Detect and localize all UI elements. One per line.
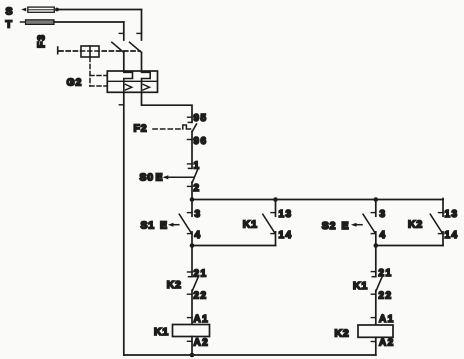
svg-text:A2: A2 [379,337,395,348]
wire node D to K2 break contact [191,246,193,277]
K1 break contact blade [376,277,382,290]
terminal tick 13 (K1) [271,212,276,214]
terminal tick 14 (K2) [439,233,444,235]
K2 aux branch lower wire [442,232,444,246]
svg-text:S2: S2 [322,220,336,232]
svg-text:E: E [160,220,168,232]
terminal tick 14 (K1) [271,233,276,235]
svg-text:95: 95 [194,113,208,124]
S2 branch lower wire [375,232,377,246]
wire node E to K1 break contact [375,246,377,277]
svg-text:4: 4 [195,230,202,241]
terminal tick 13 (K2) [439,212,444,214]
svg-text:F3: F3 [36,34,48,48]
svg-text:K1: K1 [243,218,258,230]
wire K2 break to K1 coil [191,290,193,324]
F2 thermal bump [183,125,191,129]
fuse F3 pole S [28,7,55,12]
terminal tick breaker right pole top [137,32,142,34]
node C dot (S2 branch) [374,197,379,202]
breaker G2 body box [107,71,157,92]
svg-text:4: 4 [380,230,387,241]
breaker G2 contact blade left pole [112,42,124,52]
S1 actuator arrow [172,224,179,226]
terminal tick left riser [119,104,124,106]
wire left riser (T pole to bottom rail) [123,92,125,355]
wire right pole out, jog to control column [142,92,193,122]
terminal tick 22 (K1 nc) [371,293,376,295]
node D dot [190,243,195,248]
coil K1 [173,325,210,337]
svg-text:13: 13 [445,209,459,220]
wire right pole blade to box [141,52,143,71]
svg-text:S0: S0 [140,171,154,183]
K1 make contact blade [263,214,275,232]
node B dot (K1 aux branch) [273,197,278,202]
K2 make contact blade [430,214,442,232]
terminal tick 21 (K2 nc) [188,271,193,273]
magnetic release chevron right pole [143,84,149,90]
wire S0 to node A [191,182,193,199]
node E dot [374,243,379,248]
terminal tick A1 (K2 coil) [371,317,376,319]
wire K1 coil to bottom rail [191,337,193,356]
S2 make contact blade [363,214,375,232]
mechanical linkage dashed line [59,50,140,52]
source arrow on S line [21,8,26,12]
S1 branch lower wire [191,232,193,246]
K1 aux branch upper wire [275,200,277,217]
rail S2/K2 bottoms [376,245,443,247]
magnetic release wire left pole [123,81,125,92]
wire S drop into breaker [141,10,143,41]
svg-text:22: 22 [379,290,393,301]
svg-text:A2: A2 [194,338,210,349]
svg-text:22: 22 [194,290,208,301]
S0 actuator arrow [167,176,194,178]
node A dot [190,197,195,202]
terminal tick 4 (S2) [371,233,376,235]
wire F2 to S0 [191,131,193,168]
svg-text:14: 14 [279,230,293,241]
linkage crossbox to G2 box (dashed) [89,58,91,87]
svg-text:G2: G2 [67,77,83,89]
terminal tick A1 (K1 coil) [188,317,193,319]
connection dot S line [55,8,59,12]
svg-text:21: 21 [194,268,208,279]
terminal tick A2 (K1 coil) [188,340,193,342]
S2 actuator arrow [355,224,363,226]
mechanical linkage end bar [57,47,59,54]
terminal tick 22 (K2 nc) [188,293,193,295]
svg-text:T: T [6,19,13,31]
svg-text:14: 14 [445,230,459,241]
K2 break contact fixed stub [189,276,193,278]
magnetic release chevron left pole [125,84,131,90]
svg-text:A1: A1 [194,314,210,325]
K1 aux branch lower wire [275,232,277,246]
svg-text:K2: K2 [335,328,350,340]
operator crossbox [81,46,99,57]
rail node A to K2 branch corner [192,199,443,201]
S1 make contact blade [179,214,191,232]
wire T line to breaker [54,21,124,23]
svg-text:2: 2 [194,183,201,194]
svg-text:A1: A1 [379,314,395,325]
breaker G2 body divider [107,80,157,82]
S0 break contact fixed stub [189,167,193,169]
terminal tick 4 (S1) [188,233,193,235]
wire K1 break to K2 coil [375,290,377,325]
terminal tick 21 (K1 nc) [371,271,376,273]
fuse F3 pole T lead dash [21,21,25,23]
svg-text:E: E [156,171,164,183]
F2 actuator dashed line [153,128,181,130]
coil K2 [358,325,393,337]
node F dot (bottom) [190,353,195,358]
terminal tick A2 (K2 coil) [371,341,376,343]
F2 break contact fixed stub [188,121,192,123]
S0 break contact blade [192,169,198,182]
S2 branch upper wire [375,200,377,217]
svg-text:F2: F2 [134,123,148,135]
svg-text:S1: S1 [141,220,155,232]
wire left pole blade to box [123,52,125,71]
svg-text:K2: K2 [408,218,423,230]
svg-text:3: 3 [380,209,387,220]
terminal tick 96 [188,139,193,141]
breaker G2 contact blade right pole [130,42,142,52]
svg-text:E: E [342,220,350,232]
terminal tick 1 [188,163,193,165]
svg-text:21: 21 [379,268,393,279]
svg-text:13: 13 [279,209,293,220]
svg-text:96: 96 [194,136,208,147]
svg-text:3: 3 [195,209,202,220]
svg-text:K1: K1 [353,280,368,292]
svg-text:K1: K1 [154,326,169,338]
wire S line to breaker [59,9,142,11]
terminal tick 3 (S2) [371,212,376,214]
wire T drop into breaker [123,22,125,40]
terminal tick 2 [188,185,193,187]
K1 break contact fixed stub [372,276,376,278]
terminal tick 3 (S1) [188,212,193,214]
magnetic release wire right pole [141,81,143,92]
svg-text:K2: K2 [167,279,182,291]
thermal release left pole [124,71,133,81]
F2 break contact blade [192,124,196,131]
S1 branch upper wire [191,200,193,217]
rail S1/K1 bottoms [192,245,276,247]
K2 break contact blade [193,277,199,290]
wire K2 coil to bottom rail [375,337,377,355]
terminal tick 95 [188,116,193,118]
svg-text:S: S [6,6,14,18]
bottom rail [124,354,376,356]
fuse F3 pole T [26,20,55,25]
K2 aux branch upper wire [442,199,444,217]
terminal tick breaker left pole top [119,32,124,34]
thermal release right pole [142,71,151,81]
